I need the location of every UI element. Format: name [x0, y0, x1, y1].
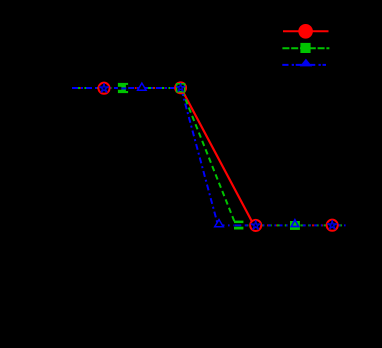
node marker green square at bottom x=238.5: [234, 221, 244, 230]
wire red series flat-left dotted segment: [72, 87, 181, 89]
wire green dashed series drop segment: [181, 88, 236, 225]
wire red series drop solid segment: [181, 88, 254, 225]
wire blue dash-dot series drop segment: [181, 88, 218, 225]
wire red series flat-right dotted segment: [254, 224, 346, 226]
legend entry 2 green dashed line: [282, 47, 329, 49]
node marker blue star at x=104 top line: [99, 83, 109, 92]
node marker blue hollow triangle over square at x=295: [291, 220, 298, 227]
legend entry 1 red solid line: [283, 30, 329, 32]
legend entry 3 blue dash-dot line: [282, 64, 326, 66]
wire green dashed series flat-bottom segment: [236, 224, 346, 226]
node marker red ring at x=104 top line: [98, 83, 109, 94]
node marker blue star at drop corner x=181: [176, 83, 185, 91]
node marker blue star at bottom x=332: [327, 220, 337, 229]
legend entry 3 blue filled triangle: [300, 59, 312, 67]
legend entry 1 red filled circle: [298, 24, 313, 39]
node marker red ring at bottom x=255.7: [250, 220, 261, 231]
node marker red ring at drop corner x=181: [175, 82, 186, 93]
node marker black disc under corner cluster x=181: [174, 82, 187, 95]
wire blue dash-dot series flat-top segment: [72, 87, 181, 89]
node marker green square at x=123 top line: [118, 83, 128, 93]
node marker blue hollow triangle at bottom corner x=219: [215, 220, 224, 227]
node marker blue hollow triangle at x=142 top line: [138, 83, 147, 90]
node marker blue star at bottom x=255.7: [251, 220, 261, 229]
node marker red ring at bottom x=332: [327, 220, 338, 231]
wire green dashed series flat-top segment: [72, 87, 181, 89]
node marker green hollow square at drop corner x=181: [177, 84, 185, 92]
node marker green filled square at bottom x=295: [290, 221, 300, 230]
wire blue dash-dot series flat-bottom segment: [218, 224, 346, 226]
legend entry 2 green filled square: [300, 43, 310, 53]
